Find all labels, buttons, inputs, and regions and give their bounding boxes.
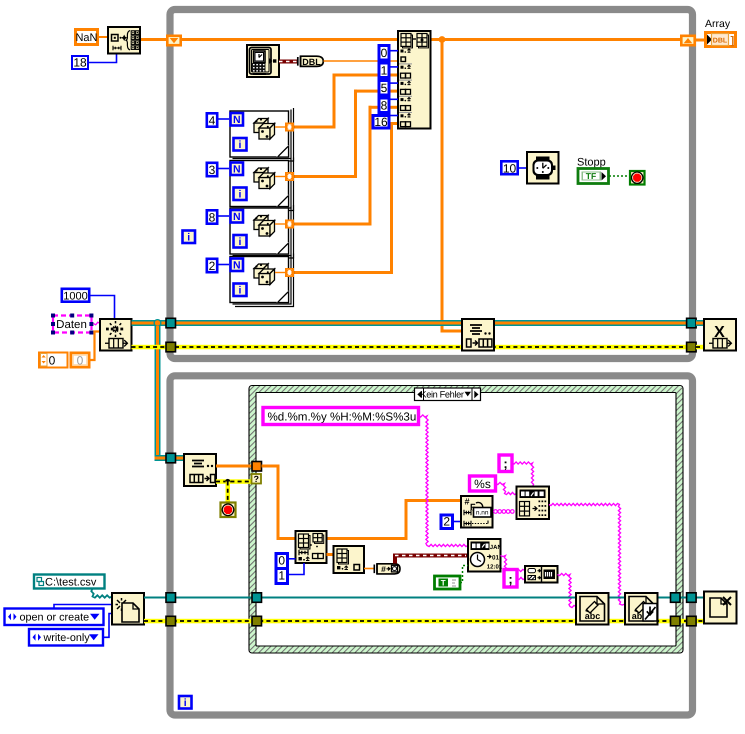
wire array constant to Obtain Queue: [91, 332, 101, 361]
wire constant to N: [219, 215, 230, 217]
wire dice to tunnel: [275, 176, 285, 178]
svg-text:10: 10: [503, 161, 517, 175]
tunnel error (top loop right): [687, 342, 697, 352]
Open/Create/Replace File node: [112, 593, 144, 625]
svg-text:T: T: [441, 578, 446, 587]
constant 10: [501, 161, 517, 175]
svg-text:i: i: [187, 232, 190, 244]
Initialize Array node: [108, 27, 140, 54]
svg-text:1: 1: [381, 64, 388, 78]
while loop 2 iteration terminal i: [179, 696, 192, 709]
while loop 2 (bottom) border: [170, 376, 693, 715]
for loop 4 count terminal N: [231, 259, 244, 272]
svg-text:0: 0: [381, 46, 388, 60]
boolean constant True: [435, 576, 461, 589]
error wire Obtain Queue to top loop: [132, 345, 168, 350]
constant 2: [207, 259, 217, 273]
wire constant to N: [219, 168, 230, 170]
wire open-or-create ring to node: [54, 605, 112, 609]
constant 1000: [62, 289, 89, 303]
string constant ; (bottom): [504, 570, 517, 588]
wire index constant 16: [391, 115, 399, 117]
To Double Precision conversion bubble DBL: [298, 56, 324, 67]
random number dice 2: [254, 168, 275, 189]
To Time Stamp node: [374, 564, 400, 574]
constant 3: [207, 163, 217, 177]
tunnel error (case left): [252, 616, 262, 626]
wire index constant 1: [391, 66, 399, 68]
index constant 0: [379, 46, 389, 61]
svg-text:?: ?: [254, 474, 260, 484]
case selector label Kein Fehler: [415, 388, 481, 401]
tunnel queue (bottom loop left): [166, 453, 176, 463]
tunnel refnum (case right): [671, 593, 681, 603]
wire dequeue element out: [216, 465, 256, 468]
wire index constant 8: [391, 98, 399, 100]
svg-text:ab: ab: [632, 611, 643, 621]
constant NaN: [75, 30, 97, 45]
wire index constant 0: [391, 50, 399, 52]
case selector terminal ?: [252, 474, 262, 484]
for loop 1 frame: [230, 108, 294, 161]
svg-text:N: N: [233, 211, 241, 223]
svg-text:16: 16: [374, 115, 388, 129]
svg-text:N: N: [233, 260, 241, 272]
constant 18: [72, 56, 88, 70]
Array indicator label: [705, 18, 731, 30]
Write Text File node 2: [625, 593, 658, 625]
queue wire Obtain Queue to top loop: [132, 320, 168, 326]
wire Stopp to conditional terminal: [609, 175, 629, 177]
Replace Array Subset node: [398, 31, 431, 129]
wire Concatenate to Write Text File 1: [558, 573, 577, 607]
wire Initialize Array to left shift register: [140, 38, 166, 41]
Number To Fractional String node: [461, 496, 493, 528]
wire Number To Fractional to Array To Spreadsheet (string array): [494, 510, 514, 514]
svg-text:#: #: [381, 564, 386, 574]
for loop 4 iteration terminal i: [234, 284, 247, 297]
for loop 3 frame: [230, 205, 294, 258]
for loop 4 frame: [230, 254, 294, 307]
path constant C:\test.csv: [34, 575, 105, 589]
wire for-loop2 output to row3: [294, 90, 399, 178]
svg-text:2: 2: [443, 514, 450, 528]
wire constant to N: [219, 264, 230, 266]
error wire dequeue to selector: [216, 479, 252, 484]
constant 1 (subset): [276, 569, 288, 584]
case structure border (No Error case): [249, 386, 683, 654]
svg-text:i: i: [239, 189, 242, 201]
tunnel refnum (bottom loop left): [166, 593, 176, 603]
svg-text:DBL: DBL: [302, 57, 321, 67]
tunnel element (case left): [252, 462, 262, 472]
index constant 1: [379, 63, 389, 78]
wire DBL to Replace Array Subset row1: [324, 60, 399, 62]
Concatenate Strings node: [525, 566, 558, 583]
svg-text:1000: 1000: [63, 291, 87, 303]
index constant 16: [373, 115, 389, 129]
boolean terminal Stopp: [578, 169, 609, 184]
svg-text:open or create: open or create: [20, 612, 90, 624]
while loop 1 iteration terminal i: [183, 231, 196, 244]
Array Subset node: [296, 531, 327, 563]
while loop 2 conditional terminal: [221, 503, 236, 518]
constant 2: [441, 514, 453, 528]
string constant Daten (selected): [51, 314, 93, 335]
svg-text:write-only: write-only: [43, 632, 91, 644]
path wire to Open/Create: [91, 589, 112, 598]
svg-text:;: ;: [503, 456, 507, 471]
junction on array wire: [439, 36, 446, 43]
Obtain Queue node: [100, 319, 132, 351]
error wire branch to conditional: [226, 482, 231, 503]
ring constant open or create: [5, 609, 104, 626]
while loop 1 conditional terminal: [630, 171, 645, 185]
wire ; to Array To Spreadsheet: [512, 462, 534, 487]
array constant 0 (element type): [39, 353, 89, 368]
wire constant 10 to Wait: [519, 167, 527, 169]
for loop 2 output tunnel: [286, 173, 293, 180]
error wire bottom: [144, 619, 704, 624]
while loop 1 (top) border: [170, 10, 693, 359]
wire for-loop4 output to row5: [294, 122, 399, 274]
Dequeue Element node: [184, 454, 216, 486]
wire ; to Concatenate: [517, 577, 525, 579]
svg-text:N: N: [233, 164, 241, 176]
svg-text:01: 01: [492, 554, 500, 561]
error junction: [225, 479, 230, 484]
error wire to Release Queue: [696, 345, 704, 350]
svg-text:18: 18: [73, 56, 87, 70]
for loop 1 output tunnel: [286, 123, 293, 130]
svg-text:#: #: [465, 497, 470, 507]
svg-text:DBL: DBL: [713, 38, 728, 45]
tunnel error (case right): [671, 616, 681, 626]
svg-text:TF: TF: [586, 171, 596, 181]
svg-text:8: 8: [209, 211, 216, 225]
tunnel error (bottom loop left): [166, 616, 176, 626]
index constant 5: [379, 81, 389, 96]
wire format string to Format Date/Time: [419, 415, 469, 547]
svg-text:abc: abc: [585, 611, 601, 621]
wire constant 2 to Number To Fractional String: [453, 521, 462, 523]
label Stopp: [577, 157, 606, 169]
for loop 2 frame: [230, 158, 294, 211]
wire Daten to Obtain Queue: [94, 322, 101, 325]
wire Array To Spreadsheet to Write Text File 2: [549, 503, 625, 605]
Enqueue Element node: [462, 319, 494, 351]
svg-text:n.nn: n.nn: [476, 510, 489, 517]
wire element into case: [262, 466, 462, 539]
svg-text:;: ;: [508, 572, 512, 587]
svg-text:0: 0: [278, 554, 285, 568]
for loop 2 iteration terminal i: [234, 188, 247, 201]
svg-text:i: i: [184, 697, 187, 709]
wire array branch down to Enqueue: [441, 40, 463, 333]
svg-text:Stopp: Stopp: [577, 157, 606, 169]
wire 18 to Initialize Array: [89, 54, 117, 63]
wire %s to Array To Spreadsheet: [496, 482, 517, 494]
wire constant 1 to Array Subset: [287, 563, 304, 575]
Close File node: [704, 592, 737, 624]
queue wire junction: [154, 319, 162, 327]
queue wire across top loop: [175, 320, 688, 326]
svg-text:Daten: Daten: [56, 319, 87, 331]
wire Index Array to To Time Stamp: [364, 568, 374, 570]
string constant ; (top): [499, 455, 512, 472]
wire constant to N: [219, 118, 230, 120]
random number dice 4: [254, 264, 275, 285]
svg-text:i: i: [239, 236, 242, 248]
svg-text:0: 0: [49, 353, 56, 367]
svg-text:N: N: [233, 114, 241, 126]
svg-text:12:01: 12:01: [487, 563, 503, 570]
Release Queue node: [704, 319, 736, 351]
for loop 3 output tunnel: [286, 220, 293, 227]
file refnum wire: [144, 597, 704, 599]
Format Date/Time String node: [468, 539, 503, 572]
Wait (ms) node: [527, 152, 559, 184]
svg-text:i: i: [239, 285, 242, 297]
error wire across top loop: [175, 345, 688, 350]
wire NaN to Initialize Array: [99, 36, 108, 38]
random number dice 1: [254, 118, 275, 139]
svg-text:NaN: NaN: [75, 32, 97, 44]
wire Format Date/Time to Concatenate: [501, 556, 526, 572]
svg-text:5: 5: [381, 81, 388, 95]
tunnel refnum (bottom loop right): [687, 593, 697, 603]
svg-text:1: 1: [278, 569, 285, 583]
constant 8: [207, 210, 217, 224]
string constant date format: [263, 408, 419, 425]
wire for-loop3 output to row4: [294, 106, 399, 226]
tunnel queue (top loop right): [687, 318, 697, 328]
wire 1000 to Obtain Queue: [91, 296, 115, 320]
tunnel refnum (case left): [252, 593, 262, 603]
wire Array Subset to Index Array: [327, 553, 334, 556]
time stamp wire to DBL conversion: [279, 60, 298, 64]
tunnel queue (top loop left): [166, 318, 176, 328]
for loop 3 count terminal N: [231, 210, 244, 223]
Array indicator terminal: [706, 33, 736, 48]
index constant 8: [379, 98, 389, 113]
for loop 1 iteration terminal i: [234, 138, 247, 151]
svg-text:]: ]: [730, 35, 734, 47]
constant 0 (subset): [276, 554, 288, 569]
ring constant write-only: [29, 629, 103, 646]
svg-text:i: i: [239, 139, 242, 151]
svg-text:8: 8: [381, 99, 388, 113]
wire constant 0 to Array Subset: [287, 558, 296, 560]
svg-text:Array: Array: [705, 18, 731, 30]
tunnel error (bottom loop right): [687, 616, 697, 626]
Index Array node: [334, 546, 365, 573]
for loop 1 count terminal N: [231, 113, 244, 126]
svg-text:JAN: JAN: [490, 544, 502, 551]
svg-text:4: 4: [209, 114, 216, 128]
wire dice to tunnel: [275, 223, 285, 225]
tunnel error (top loop left): [166, 342, 176, 352]
svg-text:3: 3: [209, 163, 216, 177]
wire Replace Array Subset output to right shift register: [431, 38, 681, 41]
wire write-only ring to node: [103, 614, 112, 638]
constant 4: [207, 113, 217, 127]
svg-text:%d.%m.%y %H:%M:%S%3u: %d.%m.%y %H:%M:%S%3u: [268, 411, 417, 424]
Array To Spreadsheet String node: [517, 487, 550, 520]
left shift register: [167, 36, 180, 45]
string constant %s: [470, 476, 496, 491]
svg-text:%s: %s: [474, 477, 491, 491]
Write Text File node 1: [576, 593, 609, 625]
for loop 3 iteration terminal i: [234, 235, 247, 248]
for loop 4 output tunnel: [286, 269, 293, 276]
svg-text:2: 2: [209, 259, 216, 273]
for loop 2 count terminal N: [231, 163, 244, 176]
wire for-loop1 output to row2: [294, 74, 399, 129]
svg-text:0: 0: [77, 353, 84, 367]
wire dice to tunnel: [275, 126, 285, 128]
wire to Array indicator: [696, 39, 704, 42]
right shift register: [681, 36, 694, 45]
queue wire into bottom loop: [155, 455, 185, 461]
wire shift register to Replace Array Subset: [182, 38, 398, 41]
wire index constant 5: [391, 82, 399, 84]
svg-text:Kein Fehler: Kein Fehler: [420, 389, 463, 399]
wire True to Format Date/Time: [460, 566, 468, 583]
Get Date/Time In Seconds node: [247, 45, 279, 77]
queue wire to Release Queue: [696, 320, 704, 326]
svg-text:C:\test.csv: C:\test.csv: [45, 577, 97, 589]
random number dice 3: [254, 215, 275, 236]
queue wire vertical branch down: [155, 326, 161, 455]
time stamp wire to Format Date/Time: [393, 554, 468, 564]
wire dice to tunnel: [275, 272, 285, 274]
